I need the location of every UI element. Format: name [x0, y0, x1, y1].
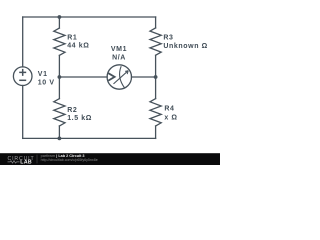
svg-text:1.5 kΩ: 1.5 kΩ	[67, 115, 92, 122]
resistor R4	[150, 99, 161, 126]
node junction mid-left (R1/R2/VM1)	[58, 75, 62, 79]
wire R2 top lead	[58, 77, 60, 99]
svg-text:10 V: 10 V	[38, 79, 55, 86]
svg-text:http://circuitlab.com/c/p65fy6: http://circuitlab.com/c/p65fy6y5nx8e	[41, 158, 98, 162]
wire R2 bottom lead	[58, 126, 60, 138]
svg-text:R3: R3	[163, 35, 173, 42]
voltage source V1	[13, 67, 32, 86]
wire R3 top lead	[155, 17, 157, 28]
footer bar	[0, 153, 220, 165]
wire R4 top lead	[155, 77, 157, 99]
svg-text:N/A: N/A	[112, 55, 126, 62]
wire bottom rail	[23, 137, 156, 139]
wire top rail	[23, 16, 156, 18]
svg-text:R2: R2	[67, 107, 77, 114]
wire voltmeter right	[132, 76, 156, 78]
wire R3 bottom lead	[155, 55, 157, 77]
resistor R3	[150, 28, 161, 55]
svg-text:Unknown Ω: Unknown Ω	[163, 43, 207, 50]
wire R4 bottom lead	[155, 126, 157, 138]
node junction bottom (R2/rail)	[58, 137, 62, 141]
svg-text:VM1: VM1	[111, 46, 127, 53]
svg-text:x Ω: x Ω	[164, 115, 177, 122]
svg-text:44 kΩ: 44 kΩ	[67, 43, 89, 50]
resistor R2	[54, 99, 65, 126]
wire top-left vertical (V1 top to rail)	[22, 17, 24, 67]
wire voltmeter left	[59, 76, 107, 78]
footer divider	[36, 155, 38, 164]
wire R1 top lead	[58, 17, 60, 28]
voltmeter VM1	[107, 65, 131, 89]
svg-text:R1: R1	[67, 34, 77, 41]
wire V1 bottom to rail	[22, 86, 24, 139]
wire R1 bottom lead	[58, 55, 60, 77]
svg-text:V1: V1	[38, 71, 48, 78]
svg-text:R4: R4	[164, 106, 174, 113]
svg-text:LAB: LAB	[20, 160, 32, 165]
resistor R1	[54, 28, 65, 55]
node junction top (R1/rail)	[58, 15, 62, 19]
footer logo resistor squiggle	[8, 161, 20, 163]
node junction mid-right (R3/R4/VM1)	[154, 75, 158, 79]
